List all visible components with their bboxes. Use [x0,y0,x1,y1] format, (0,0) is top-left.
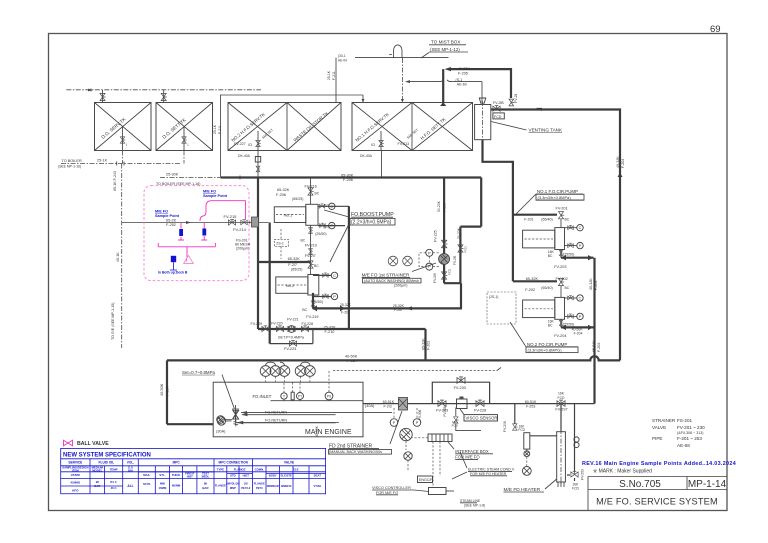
svg-text:(3.3m3/h×0.8MPa): (3.3m3/h×0.8MPa) [538,195,572,200]
svg-text:MPC: MPC [173,460,181,464]
svg-text:M/E FO: M/E FO [155,210,168,214]
svg-text:F-2l0: F-2l0 [394,308,402,312]
svg-text:FV-215: FV-215 [224,214,238,219]
svg-text:(65/25): (65/25) [291,267,302,271]
svg-text:FO.INLET: FO.INLET [253,394,272,399]
svg-text:FV-220: FV-220 [271,321,283,325]
svg-text:F-201 ~ 253: F-201 ~ 253 [677,436,702,441]
svg-text:FCD: FCD [448,268,452,275]
svg-text:TYPE: TYPE [217,467,224,471]
svg-text:F-201: F-201 [524,218,533,222]
svg-text:16MM: 16MM [159,486,167,490]
svg-text:P: P [579,244,582,248]
svg-text:FS-201: FS-201 [677,418,693,423]
svg-text:25-1K: 25-1K [213,124,217,134]
svg-text:FOR M/E FO: FOR M/E FO [455,454,480,459]
svg-text:PE73: PE73 [256,486,263,490]
svg-text:STEAM LINE: STEAM LINE [460,499,481,503]
svg-text:MNP: MNP [230,486,236,490]
svg-text:DK-40A: DK-40A [238,154,251,158]
svg-text:MAX.: MAX. [143,473,150,477]
svg-text:69: 69 [710,24,721,35]
svg-text:F-204: F-204 [621,159,625,168]
svg-text:ENGC/R: ENGC/R [419,478,433,482]
svg-text:VT/4H: VT/4H [313,484,321,488]
svg-text:Set=0.7~0.8MPa: Set=0.7~0.8MPa [182,370,216,375]
svg-text:ST/21: ST/21 [143,482,151,486]
svg-text:FLANGE: FLANGE [234,468,246,472]
svg-text:25-30K: 25-30K [166,173,179,177]
svg-text:Sample Point: Sample Point [155,214,180,218]
svg-text:I: I [126,143,127,147]
svg-text:PS: PS [327,395,332,399]
svg-text:BC: BC [315,192,320,196]
svg-text:HFO: HFO [72,488,79,492]
svg-text:60-51K: 60-51K [525,400,537,404]
svg-text:FV-201: FV-201 [556,207,568,211]
svg-text:BC: BC [301,239,306,243]
svg-text:2S-1: 2S-1 [276,242,284,246]
svg-text:(25/50): (25/50) [312,300,323,304]
svg-text:(AUTO BACK WASHING) 80Mesh: (AUTO BACK WASHING) 80Mesh [364,279,419,283]
svg-text:P: P [579,315,582,319]
svg-text:FOR M/E FO HEATER: FOR M/E FO HEATER [470,472,507,476]
svg-text:F-252: F-252 [166,223,176,227]
svg-text:(SEE MP-1-8): (SEE MP-1-8) [464,504,485,508]
svg-text:(SEE MP-1-12): (SEE MP-1-12) [430,47,460,52]
svg-text:FV-2ll: FV-2ll [514,94,518,103]
svg-text:65-32K: 65-32K [288,257,301,261]
svg-text:25-32K: 25-32K [324,325,337,329]
svg-text:NEW SYSTEM SPECIFICATION: NEW SYSTEM SPECIFICATION [63,453,151,459]
svg-text:FV-306: FV-306 [443,406,447,417]
svg-text:FV-221: FV-221 [287,318,299,322]
svg-text:S.No.705: S.No.705 [619,479,661,490]
svg-text:FV-223: FV-223 [284,347,296,351]
svg-text:JIS: JIS [244,481,248,485]
svg-text:PT: PT [298,395,302,399]
svg-text:F-203: F-203 [597,343,601,352]
svg-text:TEMP: TEMP [110,467,118,471]
svg-text:BAR: BAR [94,484,100,488]
svg-text:FV-253: FV-253 [581,469,585,480]
svg-text:FOR M/E FO: FOR M/E FO [376,491,398,495]
svg-text:FV-201 ~ 230: FV-201 ~ 230 [677,425,705,430]
svg-text:D=I: D=I [324,225,329,229]
svg-text:65-30K: 65-30K [341,174,354,178]
svg-text:(SEE MP-1-16): (SEE MP-1-16) [58,165,81,169]
svg-text:Sample Point: Sample Point [203,194,228,198]
svg-text:FV-225: FV-225 [434,230,438,242]
svg-text:!: ! [186,258,187,263]
svg-text:STL.: STL. [159,473,165,477]
svg-text:25-1K: 25-1K [327,70,331,80]
svg-text:FCD: FCD [518,428,525,432]
svg-text:FCD: FCD [558,396,566,400]
svg-text:P: P [331,224,334,228]
svg-text:BAR: BAR [202,486,208,490]
svg-text:65-32K: 65-32K [422,338,426,350]
svg-text:(65/40): (65/40) [541,286,552,290]
svg-text:(200μm): (200μm) [236,247,249,251]
svg-text:STRAINER: STRAINER [652,418,676,423]
svg-text:F-204: F-204 [574,332,583,336]
svg-text:SET.P=0.4MPa: SET.P=0.4MPa [278,336,305,340]
svg-text:FCD: FCD [464,246,468,253]
svg-text:FLUID OIL: FLUID OIL [99,460,115,464]
svg-text:BHI: BHI [128,468,133,472]
svg-text:F-206: F-206 [343,178,353,182]
svg-text:FV-203: FV-203 [554,265,566,269]
svg-text:F-202: F-202 [525,288,535,292]
svg-text:F-206: F-206 [276,193,286,197]
svg-text:FV-2l5: FV-2l5 [453,256,457,265]
svg-text:AE-04: AE-04 [338,58,347,62]
svg-text:40-50K: 40-50K [160,383,164,396]
svg-text:FV-229: FV-229 [251,322,263,326]
svg-text:(65/40): (65/40) [541,218,552,222]
svg-text:25-32K: 25-32K [340,303,352,307]
svg-text:F-234: F-234 [166,386,170,396]
svg-text:65-2K: 65-2K [166,219,177,223]
svg-text:F-2l3: F-2l3 [341,311,349,315]
svg-text:FLANGE: FLANGE [215,483,226,487]
svg-text:FV-206: FV-206 [503,421,507,432]
svg-text:C: C [330,205,333,209]
svg-text:65-32K: 65-32K [277,188,290,192]
svg-text:FV-228: FV-228 [302,322,314,326]
svg-text:40-1K: 40-1K [116,252,120,262]
svg-text:45/IMO: 45/IMO [70,480,81,484]
svg-text:R1 C: R1 C [110,480,116,484]
svg-text:P: P [428,250,431,255]
svg-text:40-50K: 40-50K [345,355,358,359]
svg-text:ALL: ALL [127,484,133,488]
svg-text:TO MIST BOX: TO MIST BOX [431,40,460,45]
svg-text:VENTING TANK: VENTING TANK [529,127,563,132]
svg-text:FO.RETURN: FO.RETURN [265,410,287,414]
svg-text:No.1: No.1 [284,212,293,217]
svg-text:F-208: F-208 [443,203,447,212]
svg-text:THICK: THICK [172,473,181,477]
svg-text:BC: BC [565,286,570,290]
svg-text:25-1K: 25-1K [97,159,108,163]
svg-text:(MANUAL BACK WASHING/50s: (MANUAL BACK WASHING/50s [329,450,382,454]
svg-text:HIST: HIST [187,475,193,479]
svg-text:ICI: ICI [248,143,252,147]
svg-text:30-32K: 30-32K [589,278,593,290]
svg-text:FCD: FCD [572,486,580,490]
svg-text:(25/50): (25/50) [563,253,574,257]
svg-text:D=I: D=I [324,204,329,208]
svg-text:(25/50): (25/50) [563,322,574,326]
svg-text:VOL.: VOL. [127,460,135,464]
svg-text:F-205: F-205 [458,71,468,75]
svg-text:P: P [333,295,336,299]
svg-text:NSNM: NSNM [172,483,181,487]
svg-text:ELE: ELE [293,468,299,472]
svg-text:SERVICE: SERVICE [68,460,82,464]
svg-text:F-210: F-210 [325,330,335,334]
svg-text:M/E FO 1st STRAINER: M/E FO 1st STRAINER [362,272,410,277]
svg-text:No.2: No.2 [286,283,295,288]
svg-text:V/UMO: V/UMO [71,473,81,477]
svg-text:PE73-2: PE73-2 [241,486,250,490]
svg-text:NO.1 F.O.CIR.PUMP: NO.1 F.O.CIR.PUMP [537,189,578,194]
svg-text:F-284: F-284 [347,359,357,363]
svg-text:BALL VALVE: BALL VALVE [77,441,109,447]
svg-text:VALVE: VALVE [652,425,666,430]
svg-text:FV-2l7: FV-2l7 [305,254,316,258]
svg-text:F-2l3: F-2l3 [384,404,392,408]
svg-text:46 C: 46 C [111,486,117,490]
svg-text:65-51K: 65-51K [383,400,395,404]
svg-text:50-20K: 50-20K [437,200,441,212]
svg-text:FV-297: FV-297 [555,408,567,412]
svg-text:FCD: FCD [494,115,502,119]
svg-text:FV-227: FV-227 [234,142,246,146]
svg-text:DK-40A: DK-40A [360,154,373,158]
svg-text:AE-68: AE-68 [677,443,690,448]
svg-text:(&FV-308 ~ 313): (&FV-308 ~ 313) [677,431,703,435]
svg-text:FO.RETURN: FO.RETURN [265,419,287,423]
svg-text:30-20K: 30-20K [457,227,461,239]
svg-text:NSNM/AR: NSNM/AR [267,484,279,488]
svg-text:SMYDL/JIS: SMYDL/JIS [226,481,240,485]
svg-text:M/E FO. SERVICE SYSTEM: M/E FO. SERVICE SYSTEM [596,497,718,507]
svg-text:BC: BC [314,264,319,268]
svg-text:(65/25): (65/25) [292,197,303,201]
svg-text:BC: BC [302,308,307,312]
svg-text:F-211: F-211 [218,125,222,134]
svg-text:(3.3m3/h×0.8MPG): (3.3m3/h×0.8MPG) [528,348,563,353]
svg-text:40-50K: 40-50K [315,425,319,437]
svg-text:C: C [579,297,582,301]
svg-text:M/E FO: M/E FO [203,190,216,194]
svg-text:FV-204: FV-204 [554,334,566,338]
svg-text:MODEL: MODEL [92,468,102,472]
svg-text:40-32K: 40-32K [616,156,620,168]
svg-text:ICI: ICI [371,143,375,147]
svg-text:BC: BC [548,254,553,258]
svg-text:MW: MW [160,481,165,485]
svg-text:(30A): (30A) [216,429,226,433]
svg-text:65-1K F-243: 65-1K F-243 [113,171,117,191]
svg-text:FV-230: FV-230 [454,386,466,390]
svg-text:VISCO SENSOR: VISCO SENSOR [466,416,498,421]
svg-text:F-2l7: F-2l7 [288,263,297,267]
svg-text:TO G/E (SEE MP-1-15): TO G/E (SEE MP-1-15) [111,303,115,340]
svg-text:MP-1-14: MP-1-14 [688,479,727,490]
svg-text:VISCO CONTROLLER: VISCO CONTROLLER [372,486,411,490]
svg-text:FV-213: FV-213 [398,142,410,146]
svg-text:F-203: F-203 [594,281,598,290]
svg-text:FV-228: FV-228 [474,408,486,412]
svg-text:FV-306: FV-306 [418,409,422,420]
svg-text:FV-219: FV-219 [306,315,318,319]
svg-text:F-253: F-253 [526,405,535,409]
svg-text:FV-2l9: FV-2l9 [433,273,437,283]
svg-text:ITEM: ITEM [72,468,79,472]
svg-text:FV-216: FV-216 [305,185,317,189]
svg-text:65-51K: 65-51K [592,340,596,352]
svg-text:F-202: F-202 [427,341,431,350]
svg-text:REV.16 Main Engine Sample Poin: REV.16 Main Engine Sample Points Added..… [582,461,736,467]
svg-text:TO BOILER (SEE MP-1-16): TO BOILER (SEE MP-1-16) [156,182,200,186]
svg-text:MPC CONNECTION: MPC CONNECTION [219,460,249,464]
svg-text:COMN.: COMN. [255,467,265,471]
svg-text:FV-202: FV-202 [556,277,568,281]
svg-text:98: 98 [204,481,208,485]
svg-text:FV-210: FV-210 [305,244,317,248]
svg-text:VALVE: VALVE [284,460,294,464]
svg-text:(200μm): (200μm) [394,284,407,288]
svg-text:MAIN ENGINE: MAIN ENGINE [305,429,352,436]
svg-text:FCD: FCD [452,423,459,427]
svg-text:BC: BC [548,323,553,327]
svg-text:ELECTRIC STEAM COND.V.: ELECTRIC STEAM COND.V. [468,467,515,471]
svg-text:AE-60: AE-60 [457,82,467,86]
svg-text:I: I [188,143,189,147]
svg-text:MEDL: MEDL [202,475,210,479]
svg-text:FV-214: FV-214 [233,227,247,232]
svg-text:(2S-1): (2S-1) [489,295,498,299]
svg-text:In Both up:Deck B: In Both up:Deck B [158,271,188,275]
svg-text:(40A): (40A) [365,404,375,408]
svg-text:C: C [579,226,582,230]
svg-text:F-211: F-211 [332,71,336,80]
svg-text:65-32K: 65-32K [526,277,539,281]
svg-text:NO.2 FO.CIR.PUMP: NO.2 FO.CIR.PUMP [527,342,567,347]
svg-text:PIPE: PIPE [652,436,662,441]
svg-text:FV-2lB: FV-2lB [493,101,504,105]
svg-text:BMM/13: BMM/13 [281,484,292,488]
svg-text:TO BOILER: TO BOILER [62,159,82,163]
svg-text:FLANGE: FLANGE [254,481,265,485]
svg-text:※ MARK : Maker Supplied: ※ MARK : Maker Supplied [593,469,652,475]
svg-text:(25/50): (25/50) [315,232,326,236]
svg-text:BC: BC [565,218,570,222]
svg-text:C: C [333,274,336,278]
svg-text:P: P [393,420,396,425]
